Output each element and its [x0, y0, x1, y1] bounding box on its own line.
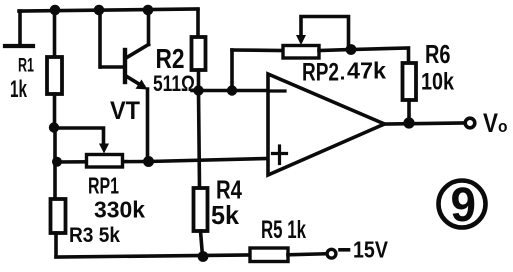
wire top rail — [19, 9, 198, 11]
node minus feedback — [227, 85, 237, 95]
wire left column down — [53, 128, 57, 200]
resistor R4 — [194, 188, 208, 231]
wire top rail corner to R2 — [196, 10, 200, 37]
node bottom rail at R4 — [198, 251, 209, 262]
wire feedback left vertical — [230, 50, 234, 91]
wire VT base column — [98, 10, 102, 67]
op-amp U1 — [268, 74, 385, 175]
wire R2 bottom — [197, 70, 201, 91]
label period speck — [341, 77, 344, 80]
wire R6 bottom — [407, 100, 411, 123]
wire R3 bottom corner — [54, 233, 58, 256]
potentiometer RP1 — [87, 155, 123, 168]
node top rail at R1 — [50, 5, 61, 16]
RP2 wiper arrowhead — [296, 35, 306, 45]
wire VT emitter down — [146, 89, 150, 161]
svg-text:R3 5k: R3 5k — [69, 224, 120, 247]
svg-text:o: o — [498, 117, 508, 136]
node R2 minus input — [193, 85, 203, 95]
resistor R3 — [51, 199, 66, 233]
wire R1 top — [53, 10, 57, 57]
svg-text:R1: R1 — [18, 56, 34, 77]
input terminal top-left — [5, 11, 33, 46]
resistor R2 — [192, 37, 206, 70]
wire R1 bottom — [53, 94, 57, 128]
wire plus-input rail — [55, 159, 268, 163]
svg-text:9: 9 — [451, 179, 477, 232]
svg-text:511Ω: 511Ω — [153, 71, 195, 96]
wire minus-input rail — [192, 89, 268, 93]
svg-text:R5 1k: R5 1k — [261, 216, 306, 244]
svg-text:10k: 10k — [421, 69, 455, 96]
wire RP1 wiper feed — [54, 128, 104, 145]
wire VT collector up — [147, 10, 151, 45]
svg-text:RP2: RP2 — [302, 59, 339, 87]
wire R2 to R4 column — [199, 91, 200, 189]
svg-text:RP1: RP1 — [88, 173, 119, 199]
wire R4 bottom — [201, 231, 203, 256]
resistor R6 — [403, 63, 417, 100]
resistor R1 — [47, 57, 62, 94]
svg-text:V: V — [483, 108, 498, 138]
wire feedback to RP2 — [232, 48, 283, 52]
node top rail at VT base — [94, 5, 105, 16]
transistor VT — [101, 45, 149, 90]
node output R6 — [403, 117, 414, 128]
node RP2 right loop — [346, 44, 357, 55]
node left column plus rail — [52, 157, 62, 167]
terminal Vo — [465, 118, 475, 128]
node R1 bottom wiper tap — [49, 122, 59, 132]
potentiometer RP2 — [283, 46, 319, 59]
svg-text:R6: R6 — [425, 39, 451, 69]
svg-text:330k: 330k — [94, 197, 145, 223]
wire RP2 right — [319, 50, 351, 51]
RP1 wiper arrowhead — [99, 144, 109, 154]
node top rail at VT collector — [143, 5, 154, 16]
terminal -15V — [327, 249, 336, 258]
svg-text:47k: 47k — [347, 58, 386, 84]
wire output — [385, 123, 465, 124]
wire RP2 wiper loop — [301, 17, 349, 46]
node RP1 right emitter junction — [143, 156, 154, 167]
svg-text:R2: R2 — [156, 43, 185, 74]
svg-text:1k: 1k — [10, 76, 27, 103]
wire bottom rail — [56, 255, 250, 257]
wire RP2 loop to R6 — [351, 48, 409, 63]
svg-text:15V: 15V — [353, 237, 389, 263]
figure number 9 — [439, 179, 486, 232]
label minus dash — [340, 248, 349, 252]
svg-text:5k: 5k — [211, 200, 240, 230]
svg-text:VT: VT — [110, 97, 140, 125]
resistor R5 — [250, 248, 288, 262]
wire R5 to terminal — [288, 254, 325, 255]
